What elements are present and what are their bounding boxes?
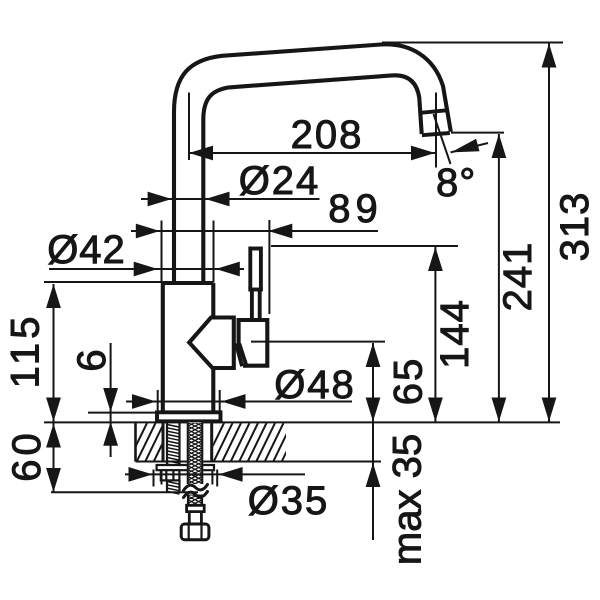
label 115 xyxy=(4,313,48,389)
dimension O48 line xyxy=(126,401,352,403)
dimension 60 bottom extension line xyxy=(51,491,198,493)
dimension 60 down arrow xyxy=(46,468,61,492)
dimension O24 left arrow xyxy=(148,192,172,207)
dimension O42 left arrow xyxy=(134,262,158,277)
dimension 6 up arrow xyxy=(103,422,118,446)
svg-text:313: 313 xyxy=(553,192,597,262)
counter hole right edge xyxy=(210,422,213,461)
svg-text:144: 144 xyxy=(433,299,477,369)
label 241 xyxy=(496,242,540,312)
dimension O42 right arrow xyxy=(216,262,240,277)
hose ferrule xyxy=(187,505,205,511)
mounting nut xyxy=(161,470,180,480)
dimension 6 down arrow xyxy=(103,388,118,412)
cartridge cylinder xyxy=(239,320,268,366)
dimension O35 left arrow xyxy=(129,467,153,482)
dimension 60 up arrow xyxy=(46,424,61,448)
dimension O35 right arrow xyxy=(219,467,243,482)
body column xyxy=(163,283,214,412)
threaded stud xyxy=(167,422,180,492)
dimension 115 top extension line xyxy=(44,281,163,283)
dimension 144 up arrow xyxy=(428,247,443,271)
dimension O42 line xyxy=(49,268,244,270)
spout aerator line xyxy=(419,110,446,113)
label 208 xyxy=(291,113,364,157)
dimension 89 left arrow xyxy=(136,224,160,239)
cartridge centre extension line xyxy=(251,341,385,343)
washer xyxy=(157,465,214,470)
base plate top extension line xyxy=(88,412,158,414)
lever rod xyxy=(248,247,263,321)
label 8 degrees xyxy=(436,161,476,205)
dimension 6 line xyxy=(110,343,112,457)
dimension 89 line xyxy=(131,230,378,232)
dimension O48 left arrow xyxy=(132,394,156,409)
dimension 115 line xyxy=(53,284,55,422)
spout tip face xyxy=(422,133,450,135)
counter hole left edge xyxy=(162,422,165,461)
dimension 65 up arrow xyxy=(366,343,381,367)
counter left edge xyxy=(134,422,137,461)
dimension O48 right arrow xyxy=(222,394,246,409)
svg-text:89: 89 xyxy=(328,187,383,231)
8 degree arrow tail xyxy=(451,143,488,152)
counter hatch left xyxy=(128,421,182,462)
dimension O35 left extension line xyxy=(154,470,162,487)
dimension 65 down arrow xyxy=(366,398,381,422)
dimension 144 down arrow xyxy=(428,398,443,422)
svg-text:241: 241 xyxy=(496,242,540,312)
svg-text:60: 60 xyxy=(5,429,49,482)
svg-text:Ø48: Ø48 xyxy=(274,363,356,407)
counter hatch right xyxy=(205,421,302,462)
supply hose lower braid xyxy=(188,495,202,506)
label 65 xyxy=(387,357,431,406)
dimension max35 up arrow xyxy=(366,463,381,487)
dimension 241 down arrow xyxy=(492,398,507,422)
svg-text:208: 208 xyxy=(291,113,364,157)
label O35 xyxy=(248,479,330,523)
faucet spout outer profile xyxy=(174,44,451,284)
dimension O35 right extension line xyxy=(212,470,217,487)
dimension 241 up arrow xyxy=(492,134,507,158)
dimension 208 left arrow xyxy=(189,146,213,161)
spout tip vertical extension xyxy=(435,93,437,168)
faucet spout inner profile xyxy=(203,75,421,284)
svg-text:65: 65 xyxy=(387,357,431,406)
dimension O48 left extension line xyxy=(157,390,159,420)
supply hose upper braid xyxy=(187,422,203,484)
svg-text:115: 115 xyxy=(4,313,48,389)
hose break symbol xyxy=(184,485,208,498)
hose tube xyxy=(189,512,201,524)
label 89 xyxy=(328,187,383,231)
dimension 89 right arrow xyxy=(268,224,292,239)
dimension max35 line xyxy=(372,423,374,540)
svg-text:6: 6 xyxy=(70,348,114,371)
dimension 60 line xyxy=(53,423,55,492)
counter bottom line xyxy=(136,461,382,463)
svg-text:Ø42: Ø42 xyxy=(47,228,126,272)
spout top extension line xyxy=(382,42,563,44)
counter top line xyxy=(44,421,560,423)
svg-text:Ø35: Ø35 xyxy=(248,479,330,523)
label O42 xyxy=(47,228,126,272)
8 degree slant line xyxy=(434,114,451,164)
label 6 xyxy=(70,348,114,371)
dimension 115 down arrow xyxy=(46,398,61,422)
stud threads xyxy=(167,425,180,495)
lever skirt xyxy=(236,344,247,368)
dimension O42 left extension line xyxy=(161,221,163,283)
label O24 xyxy=(239,159,321,203)
dimension 208 line xyxy=(189,152,435,154)
hose end nut xyxy=(181,524,209,540)
svg-text:max 35: max 35 xyxy=(386,434,430,565)
dimension 208 left extension line xyxy=(188,93,190,161)
dimension O35 line xyxy=(125,473,305,475)
dimension 313 down arrow xyxy=(542,398,557,422)
dimension 208 right arrow xyxy=(411,146,435,161)
dimension 144 line xyxy=(434,247,436,422)
8 degree arrow xyxy=(451,139,480,153)
cone hub pentagon xyxy=(189,318,234,369)
svg-text:Ø24: Ø24 xyxy=(239,159,321,203)
dimension 89 right extension line xyxy=(268,220,270,314)
label max 35 xyxy=(386,434,430,565)
label 60 xyxy=(5,429,49,482)
dimension 115 up arrow xyxy=(46,284,61,308)
dimension 241 line xyxy=(498,134,500,422)
dimension O48 right extension line xyxy=(219,390,221,420)
dimension O42 right extension line xyxy=(213,221,215,283)
svg-text:8°: 8° xyxy=(436,161,476,205)
lever top extension line xyxy=(271,245,458,247)
base plate xyxy=(157,412,221,421)
dimension O24 right arrow xyxy=(206,192,230,207)
label O48 xyxy=(274,363,356,407)
dimension 313 up arrow xyxy=(542,44,557,68)
dimension 65 line xyxy=(372,343,374,422)
label 144 xyxy=(433,299,477,369)
dimension O24 line xyxy=(141,198,320,200)
label 313 xyxy=(553,192,597,262)
spout tip extension line xyxy=(451,132,504,134)
dimension 313 line xyxy=(548,44,550,422)
